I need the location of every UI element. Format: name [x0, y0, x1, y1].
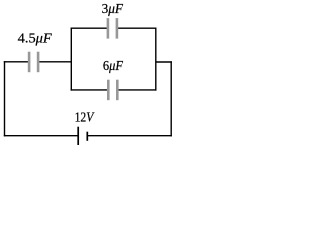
- wire: middle branch left segment to C3: [71, 89, 108, 91]
- wire: middle branch right segment from C3 to box right vertical: [118, 89, 156, 91]
- capacitor C3 6uF plates: [107, 80, 110, 101]
- wire: left vertical rail: [4, 61, 6, 136]
- capacitor C1 4.5uF plates: [28, 52, 31, 72]
- wire: top branch left segment to C2: [71, 27, 107, 29]
- wire: top branch right segment from C2: [118, 27, 157, 29]
- wire: right tap from parallel box to outer rail: [156, 61, 172, 63]
- battery B1 short plate: [86, 132, 88, 141]
- svg-text:4.5μF: 4.5μF: [18, 32, 52, 47]
- battery B1 long plate: [77, 127, 79, 146]
- wire: from C1 right plate to parallel-box left vertical: [39, 61, 72, 63]
- wire: parallel box right vertical: [155, 28, 157, 91]
- node A: parallel box left vertical wire: [70, 28, 72, 91]
- wire: bottom rail right segment from battery: [88, 135, 172, 137]
- capacitor C2 3uF plates: [107, 18, 110, 38]
- wire: outer right vertical rail: [170, 61, 172, 136]
- svg-text:3μF: 3μF: [102, 2, 124, 17]
- svg-text:12V: 12V: [75, 111, 95, 126]
- svg-text:6μF: 6μF: [103, 59, 123, 74]
- wire: bottom rail left segment to battery: [4, 135, 78, 137]
- wire: left horizontal segment from left rail to C1 left plate: [4, 61, 28, 63]
